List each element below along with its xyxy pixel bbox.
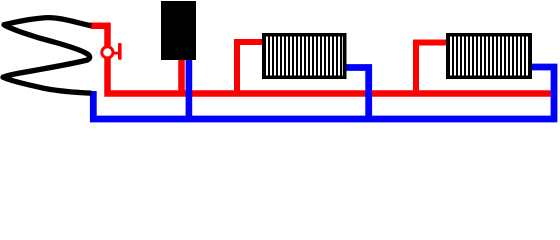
valve V1 stem and handle (114, 43, 122, 60)
heating coil (heat exchanger zigzag) (3, 18, 92, 94)
valve V1 body (circle) (102, 47, 113, 58)
wire: blue return pipe - left riser from coil, return main, right riser to radiator 2 (93, 67, 554, 119)
radiator R2 body (446, 33, 532, 79)
wire: red riser to radiator 2 (416, 43, 447, 97)
expansion tank (black box) (161, 1, 196, 60)
wire: red riser to radiator 1 (237, 42, 263, 97)
wire: red supply pipe from coil top, down through valve, along supply main (91, 26, 555, 94)
radiator R2 fins (450, 37, 529, 76)
wire: blue connection from expansion tank down to return main (186, 59, 193, 122)
wire: blue drop from radiator 1 to return main (345, 68, 369, 123)
radiator R1 fins (266, 37, 343, 76)
radiator R1 body (262, 33, 347, 79)
wire: red connection from expansion tank to supply main (178, 59, 185, 95)
